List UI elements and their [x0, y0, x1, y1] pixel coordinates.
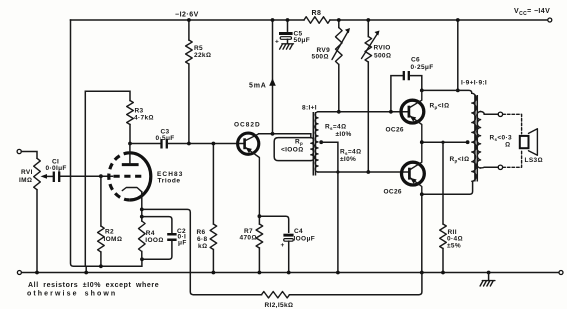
svg-text:0·4Ω: 0·4Ω: [447, 236, 463, 243]
resistor R8 (in series in top rail): [304, 17, 330, 24]
resistor R11 0.4: [442, 142, 444, 224]
potentiometer RV10 500: [365, 37, 372, 63]
svg-text:Rs=4Ω: Rs=4Ω: [325, 124, 346, 132]
svg-text:R2: R2: [105, 229, 114, 236]
wire bottom ground rail: [22, 272, 559, 274]
svg-text:6·8: 6·8: [197, 236, 207, 243]
wire secondary bottom to terminal: [481, 166, 499, 169]
svg-text:0·25μF: 0·25μF: [411, 64, 434, 71]
node R7 bottom: [258, 271, 262, 275]
svg-text:All resistors ±I0% except wher: All resistors ±I0% except where: [28, 282, 159, 289]
node R7 top / C4: [258, 214, 262, 218]
svg-text:otherwise shown: otherwise shown: [27, 291, 117, 298]
node RV1 bottom: [35, 271, 39, 275]
svg-text:kΩ: kΩ: [198, 243, 207, 250]
svg-text:±I0%: ±I0%: [340, 156, 356, 163]
terminal output ground bottom right: [559, 271, 563, 275]
svg-text:R5: R5: [194, 45, 203, 52]
terminal input top left: [17, 149, 21, 153]
svg-text:OC82D: OC82D: [234, 122, 261, 129]
transistor OC26 upper: [401, 100, 424, 123]
node ground stub: [84, 271, 88, 275]
potentiometer RV1 1M: [34, 158, 41, 189]
svg-text:IOOΩ: IOOΩ: [145, 237, 163, 244]
transistor OC26 lower: [402, 162, 425, 185]
svg-text:5mA: 5mA: [249, 83, 267, 90]
node anode / R3 / C3: [128, 142, 132, 146]
terminal secondary bottom: [498, 165, 502, 169]
ground under C5: [280, 44, 294, 49]
wire feedback from cathode: [142, 209, 262, 294]
capacitor C5 50uF: [287, 20, 289, 31]
svg-text:Rs=4Ω: Rs=4Ω: [340, 149, 361, 157]
svg-text:IOOμF: IOOμF: [294, 236, 316, 243]
capacitor C6 0.25uF: [391, 76, 403, 112]
output transformer core: [475, 95, 477, 182]
resistor R6 6.8k: [212, 144, 214, 225]
node R5 top: [187, 18, 191, 22]
node C6 right / collector: [420, 89, 424, 93]
anode plate: [122, 163, 139, 166]
wire top supply rail right section: [330, 19, 547, 21]
wire top supply rail left section: [71, 19, 305, 21]
svg-text:LS3Ω: LS3Ω: [525, 157, 543, 164]
potentiometer RV9 500: [336, 28, 343, 65]
wire rail feed to output transformer top: [457, 20, 459, 90]
svg-text:RI2,I5kΩ: RI2,I5kΩ: [265, 302, 294, 309]
wire upper collector node to primary top: [422, 90, 472, 93]
svg-text:Rp<IΩ: Rp<IΩ: [430, 103, 450, 111]
svg-text:50μF: 50μF: [294, 37, 311, 44]
svg-text:0·5μF: 0·5μF: [156, 135, 175, 142]
svg-text:μF: μF: [178, 240, 187, 247]
node R5 bottom / base wire: [187, 142, 191, 146]
resistor R12 15k feedback: [262, 292, 290, 298]
svg-text:Triode: Triode: [158, 178, 181, 185]
capacitor C1 0.01uF: [54, 172, 59, 183]
node output primary centre tap: [466, 140, 470, 144]
node cathode to feedback: [140, 208, 144, 212]
capacitor C3 0.5uF: [130, 143, 161, 145]
svg-text:4·7kΩ: 4·7kΩ: [134, 115, 154, 122]
svg-text:R3: R3: [135, 108, 144, 115]
output transformer primary winding: [472, 93, 476, 181]
wire dashed speaker bottom: [503, 150, 522, 168]
svg-text:RVIO: RVIO: [374, 45, 391, 52]
svg-text:IMΩ: IMΩ: [19, 177, 32, 184]
wire ground stub from sub-rail to bottom rail: [85, 266, 87, 272]
wire secondary bottom to lower OC26 base: [318, 171, 409, 173]
wire dashed speaker top: [503, 114, 522, 134]
wire centre tap to ground rail: [321, 142, 338, 272]
svg-text:RVI: RVI: [21, 169, 33, 176]
wire lower emitter node to primary bottom: [422, 181, 473, 194]
svg-text:±I0%: ±I0%: [336, 131, 352, 138]
svg-text:8:I+I: 8:I+I: [302, 105, 317, 112]
svg-text:500Ω: 500Ω: [312, 54, 329, 61]
resistor R5 22k: [188, 20, 190, 40]
wire input to RV1 top: [22, 152, 38, 159]
svg-text:C6: C6: [411, 57, 420, 64]
resistor R7 470: [256, 224, 263, 248]
wire secondary top to upper OC26 base: [318, 111, 409, 113]
driver transformer primary winding: [311, 138, 314, 161]
ground bottom right: [487, 271, 491, 275]
svg-text:Rp<IΩ: Rp<IΩ: [450, 156, 470, 164]
node R6 top: [212, 142, 216, 146]
terminal Vcc top right: [548, 18, 552, 22]
svg-text:500Ω: 500Ω: [374, 53, 391, 60]
driver transformer core: [313, 112, 315, 176]
node collector / 5mA feed: [271, 132, 275, 136]
svg-text:−I2·6V: −I2·6V: [175, 11, 199, 18]
wire grid line from C1 to tube grid: [61, 175, 113, 177]
output transformer secondary winding: [477, 112, 481, 169]
resistor R2 10M: [100, 176, 102, 226]
svg-text:IOMΩ: IOMΩ: [104, 236, 123, 243]
resistor R3 4.7k: [85, 91, 130, 266]
svg-text:C4: C4: [294, 228, 303, 235]
svg-text:R4: R4: [146, 230, 155, 237]
svg-text:I·9+I·9:I: I·9+I·9:I: [461, 80, 487, 87]
svg-text:OC26: OC26: [386, 127, 404, 134]
node secondary centre tap: [319, 140, 323, 144]
resistor R4 100: [139, 221, 146, 252]
driver transformer secondary winding: [315, 112, 318, 172]
cathode: [122, 188, 142, 192]
svg-text:470Ω: 470Ω: [240, 235, 257, 242]
terminal secondary top: [498, 112, 502, 116]
svg-text:Ω: Ω: [505, 142, 510, 149]
node C6 left / base: [389, 110, 393, 114]
triode ECH83 envelope: [130, 153, 151, 200]
node R4 bottom / C2 return: [140, 257, 144, 261]
transistor OC82D: [238, 133, 259, 154]
node R2 bottom on sub-rail: [99, 264, 103, 268]
svg-text:+: +: [281, 242, 285, 249]
driver transformer T1 8:1+1 primary loop box: [310, 134, 312, 138]
current arrow 5mA: [269, 78, 276, 85]
svg-text:R6: R6: [197, 229, 206, 236]
wire left vertical from top rail down to cathode sub-rail: [71, 20, 142, 266]
svg-text:0·0IμF: 0·0IμF: [46, 165, 67, 172]
node R6 bottom: [212, 271, 216, 275]
wire secondary top to terminal: [481, 112, 499, 115]
wire emitter node to ground rail: [421, 194, 423, 272]
svg-text:22kΩ: 22kΩ: [194, 52, 211, 59]
loudspeaker LS 3 ohm: [520, 136, 529, 148]
terminal input ground bottom left: [17, 271, 21, 275]
svg-text:+: +: [275, 38, 279, 45]
svg-text:OC26: OC26: [384, 189, 402, 196]
svg-text:<IOOΩ: <IOOΩ: [281, 147, 303, 154]
wire midpoint to primary centre tap: [422, 141, 468, 143]
capacitor C2 0.1uF: [142, 217, 172, 233]
wire collector of OC82D to driver transformer: [259, 133, 311, 135]
svg-text:±5%: ±5%: [447, 243, 461, 250]
capacitor C4 100uF: [259, 216, 288, 232]
wire 5mA feed from rail: [272, 20, 274, 134]
svg-text:R8: R8: [312, 10, 322, 17]
node R2 top on grid wire: [99, 174, 103, 178]
grid dashes: [114, 175, 144, 178]
node C4 bottom: [287, 271, 291, 275]
node cathode to C2: [140, 215, 144, 219]
